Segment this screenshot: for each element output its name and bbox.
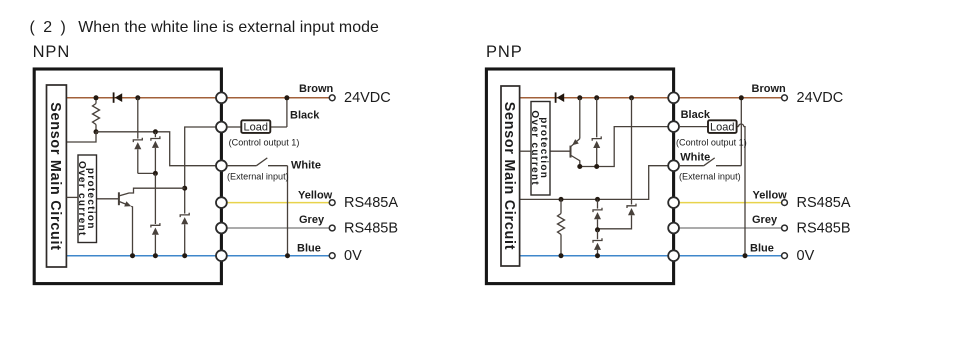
- NPN connector circles on box edge: [216, 92, 227, 261]
- title: [30, 19, 379, 36]
- PNP zener ZD5 top: [592, 98, 601, 167]
- svg-text:Grey: Grey: [299, 214, 325, 226]
- PNP load wire black with hop: [679, 124, 745, 256]
- label NPN: [33, 43, 71, 61]
- NPN label 0V: [344, 248, 362, 264]
- NPN junction dot brown x138: [135, 95, 140, 100]
- NPN over current protection box: [76, 155, 97, 243]
- PNP wire label Yellow: [753, 189, 788, 201]
- NPN label RS485B: [344, 220, 398, 236]
- PNP switch SW2 external input: [679, 98, 742, 166]
- NPN blue wire 0V net: [66, 255, 329, 257]
- svg-text:( 2 ) When the white line is e: ( 2 ) When the white line is external in…: [30, 19, 379, 36]
- NPN junction dot load to brown: [284, 95, 289, 100]
- NPN wire label Blue: [297, 243, 321, 255]
- svg-text:Brown: Brown: [299, 83, 334, 95]
- NPN wire x155 down with zener ZD4: [151, 173, 160, 255]
- PNP blue wire 0V net: [520, 255, 782, 257]
- NPN zener ZD1: [133, 138, 155, 174]
- PNP wire label Blue: [750, 243, 774, 255]
- svg-text:RS485B: RS485B: [344, 220, 398, 236]
- NPN diode D1 on brown wire: [114, 92, 123, 102]
- NPN transistor Q1: [97, 188, 185, 256]
- NPN label external input: [227, 171, 289, 181]
- PNP junction dot load to blue: [743, 253, 748, 258]
- svg-text:0V: 0V: [344, 248, 362, 264]
- PNP sensor outer box: [486, 69, 673, 284]
- PNP collector net horizontal: [580, 127, 674, 167]
- NPN white input net horizontal: [66, 132, 221, 166]
- svg-text:NPN: NPN: [33, 43, 71, 61]
- NPN junction dots on blue wire: [130, 253, 187, 258]
- NPN wire label Brown: [299, 83, 334, 95]
- PNP diode D2 on brown wire: [556, 92, 565, 102]
- PNP zener ZD6: [593, 199, 602, 229]
- PNP junction dot white resistor: [559, 197, 564, 202]
- PNP label 0V: [797, 248, 815, 264]
- svg-text:RS485B: RS485B: [797, 220, 851, 236]
- PNP junction dot emitter x580: [577, 95, 582, 100]
- svg-text:White: White: [680, 152, 710, 164]
- PNP resistor R2: [558, 199, 565, 255]
- NPN junction dot white to blue: [285, 253, 290, 258]
- PNP load box L2: [708, 120, 737, 133]
- NPN load wire black: [227, 98, 287, 127]
- NPN resistor R1: [93, 98, 100, 132]
- PNP white input net: [520, 166, 674, 200]
- svg-text:RS485A: RS485A: [797, 195, 851, 211]
- svg-text:0V: 0V: [797, 248, 815, 264]
- PNP junction dot x631: [629, 95, 634, 100]
- NPN junction dot resistor top: [94, 95, 99, 100]
- NPN sensor main circuit box: [47, 85, 67, 267]
- svg-text:(Control output 1): (Control output 1): [676, 137, 747, 147]
- svg-text:Black: Black: [290, 109, 320, 121]
- NPN wire label Yellow: [298, 189, 333, 201]
- svg-text:Load: Load: [244, 122, 268, 134]
- NPN yellow wire RS485A: [227, 202, 330, 204]
- svg-text:Brown: Brown: [752, 83, 787, 95]
- svg-text:Blue: Blue: [750, 243, 774, 255]
- NPN wire sensor box to ocp box: [66, 196, 78, 198]
- PNP junction dot white to brown: [739, 95, 744, 100]
- PNP junction dot collector: [577, 164, 582, 169]
- svg-text:Grey: Grey: [752, 214, 778, 226]
- NPN terminal 24VDC: [329, 95, 335, 101]
- PNP sensor main circuit box: [501, 86, 520, 266]
- NPN junction dot zener anodes: [153, 171, 158, 176]
- PNP brown wire 24VDC net: [520, 97, 782, 99]
- PNP terminal RS485A: [782, 200, 788, 206]
- NPN terminal RS485B: [329, 225, 335, 231]
- PNP junction dot zener x597: [594, 95, 599, 100]
- PNP label 24VDC: [797, 90, 844, 106]
- svg-text:Sensor Main Circuit: Sensor Main Circuit: [47, 102, 63, 251]
- PNP grey wire RS485B: [679, 227, 782, 229]
- NPN grey wire RS485B: [227, 227, 330, 229]
- svg-text:PNP: PNP: [486, 43, 523, 61]
- PNP yellow wire RS485A: [679, 202, 782, 204]
- svg-text:(External input): (External input): [227, 171, 289, 181]
- NPN label RS485A: [344, 195, 398, 211]
- PNP terminal 0V: [782, 253, 788, 259]
- PNP label external input: [679, 171, 741, 181]
- PNP wire label Brown: [752, 83, 787, 95]
- PNP wire sensor box to ocp box: [520, 150, 531, 152]
- PNP label RS485A: [797, 195, 851, 211]
- PNP connector circles on box edge: [668, 92, 679, 261]
- svg-text:(Control output 1): (Control output 1): [229, 137, 300, 147]
- label PNP: [486, 43, 523, 61]
- PNP label control output 1: [676, 137, 747, 147]
- NPN label 24VDC: [344, 90, 391, 106]
- NPN label control output 1: [229, 137, 300, 147]
- NPN junction dot resistor bottom: [94, 129, 99, 134]
- svg-text:Black: Black: [681, 109, 711, 121]
- NPN terminal 0V: [329, 253, 335, 259]
- svg-text:protection: protection: [538, 117, 549, 179]
- PNP terminal RS485B: [782, 225, 788, 231]
- PNP junction dot zener chain: [595, 227, 600, 232]
- NPN sensor outer box: [34, 69, 221, 284]
- NPN wire label Grey: [299, 214, 325, 226]
- svg-text:Sensor Main Circuit: Sensor Main Circuit: [501, 102, 517, 251]
- NPN wire label Black: [290, 109, 320, 121]
- NPN brown wire 24VDC net: [66, 97, 329, 99]
- PNP wire label Grey: [752, 214, 778, 226]
- PNP junction dot zener collector: [594, 164, 599, 169]
- svg-text:White: White: [291, 159, 321, 171]
- PNP label RS485B: [797, 220, 851, 236]
- NPN junction dot collector node: [182, 186, 187, 191]
- PNP transistor Q2: [550, 98, 580, 167]
- NPN zener ZD2: [151, 132, 160, 174]
- PNP over current protection box: [529, 102, 550, 196]
- svg-text:Blue: Blue: [297, 243, 321, 255]
- PNP junction dots on blue wire: [559, 253, 601, 258]
- PNP junction dot white zener: [595, 197, 600, 202]
- PNP wire label Black: [681, 109, 711, 121]
- svg-text:Yellow: Yellow: [753, 189, 788, 201]
- svg-text:RS485A: RS485A: [344, 195, 398, 211]
- svg-text:24VDC: 24VDC: [344, 90, 391, 106]
- NPN wire label White: [291, 159, 321, 171]
- NPN junction dot white net x155: [153, 129, 158, 134]
- svg-text:Load: Load: [710, 122, 734, 134]
- svg-text:24VDC: 24VDC: [797, 90, 844, 106]
- PNP terminal 24VDC: [782, 95, 788, 101]
- NPN switch SW1 external input: [227, 158, 288, 256]
- NPN terminal RS485A: [329, 200, 335, 206]
- PNP branch x631 with zener ZD8: [598, 98, 637, 229]
- NPN wire brown dot down to zener ZD1: [137, 98, 139, 139]
- svg-text:Yellow: Yellow: [298, 189, 333, 201]
- PNP wire label White: [680, 152, 710, 164]
- svg-text:protection: protection: [85, 168, 96, 230]
- svg-text:(External input): (External input): [679, 171, 741, 181]
- PNP zener ZD7: [593, 230, 602, 256]
- NPN load box L1: [241, 120, 270, 133]
- NPN black output net from circle2: [180, 127, 221, 256]
